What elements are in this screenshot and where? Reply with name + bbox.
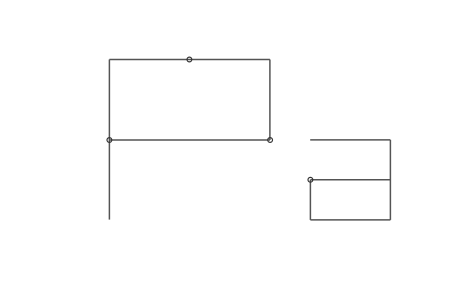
node A terminal circle on top edge xyxy=(187,57,192,62)
node D terminal circle at right shape middle-left corner xyxy=(308,177,313,182)
wire bottom edge of left loop xyxy=(109,139,270,141)
wire right edge of right shape xyxy=(389,140,391,220)
node C terminal circle at bottom-right corner xyxy=(268,138,273,143)
wire middle segment of right shape xyxy=(310,179,390,181)
node B terminal circle at bottom-left junction xyxy=(107,138,112,143)
wire top edge of left loop xyxy=(109,59,270,61)
wire bottom edge of right lower box xyxy=(310,219,390,221)
wire left edge of left loop xyxy=(108,60,110,141)
wire right edge of left loop xyxy=(269,60,271,141)
wire vertical stub below node B xyxy=(108,140,110,220)
wire left edge of right lower box xyxy=(309,180,311,220)
wire top segment of right shape xyxy=(310,139,390,141)
